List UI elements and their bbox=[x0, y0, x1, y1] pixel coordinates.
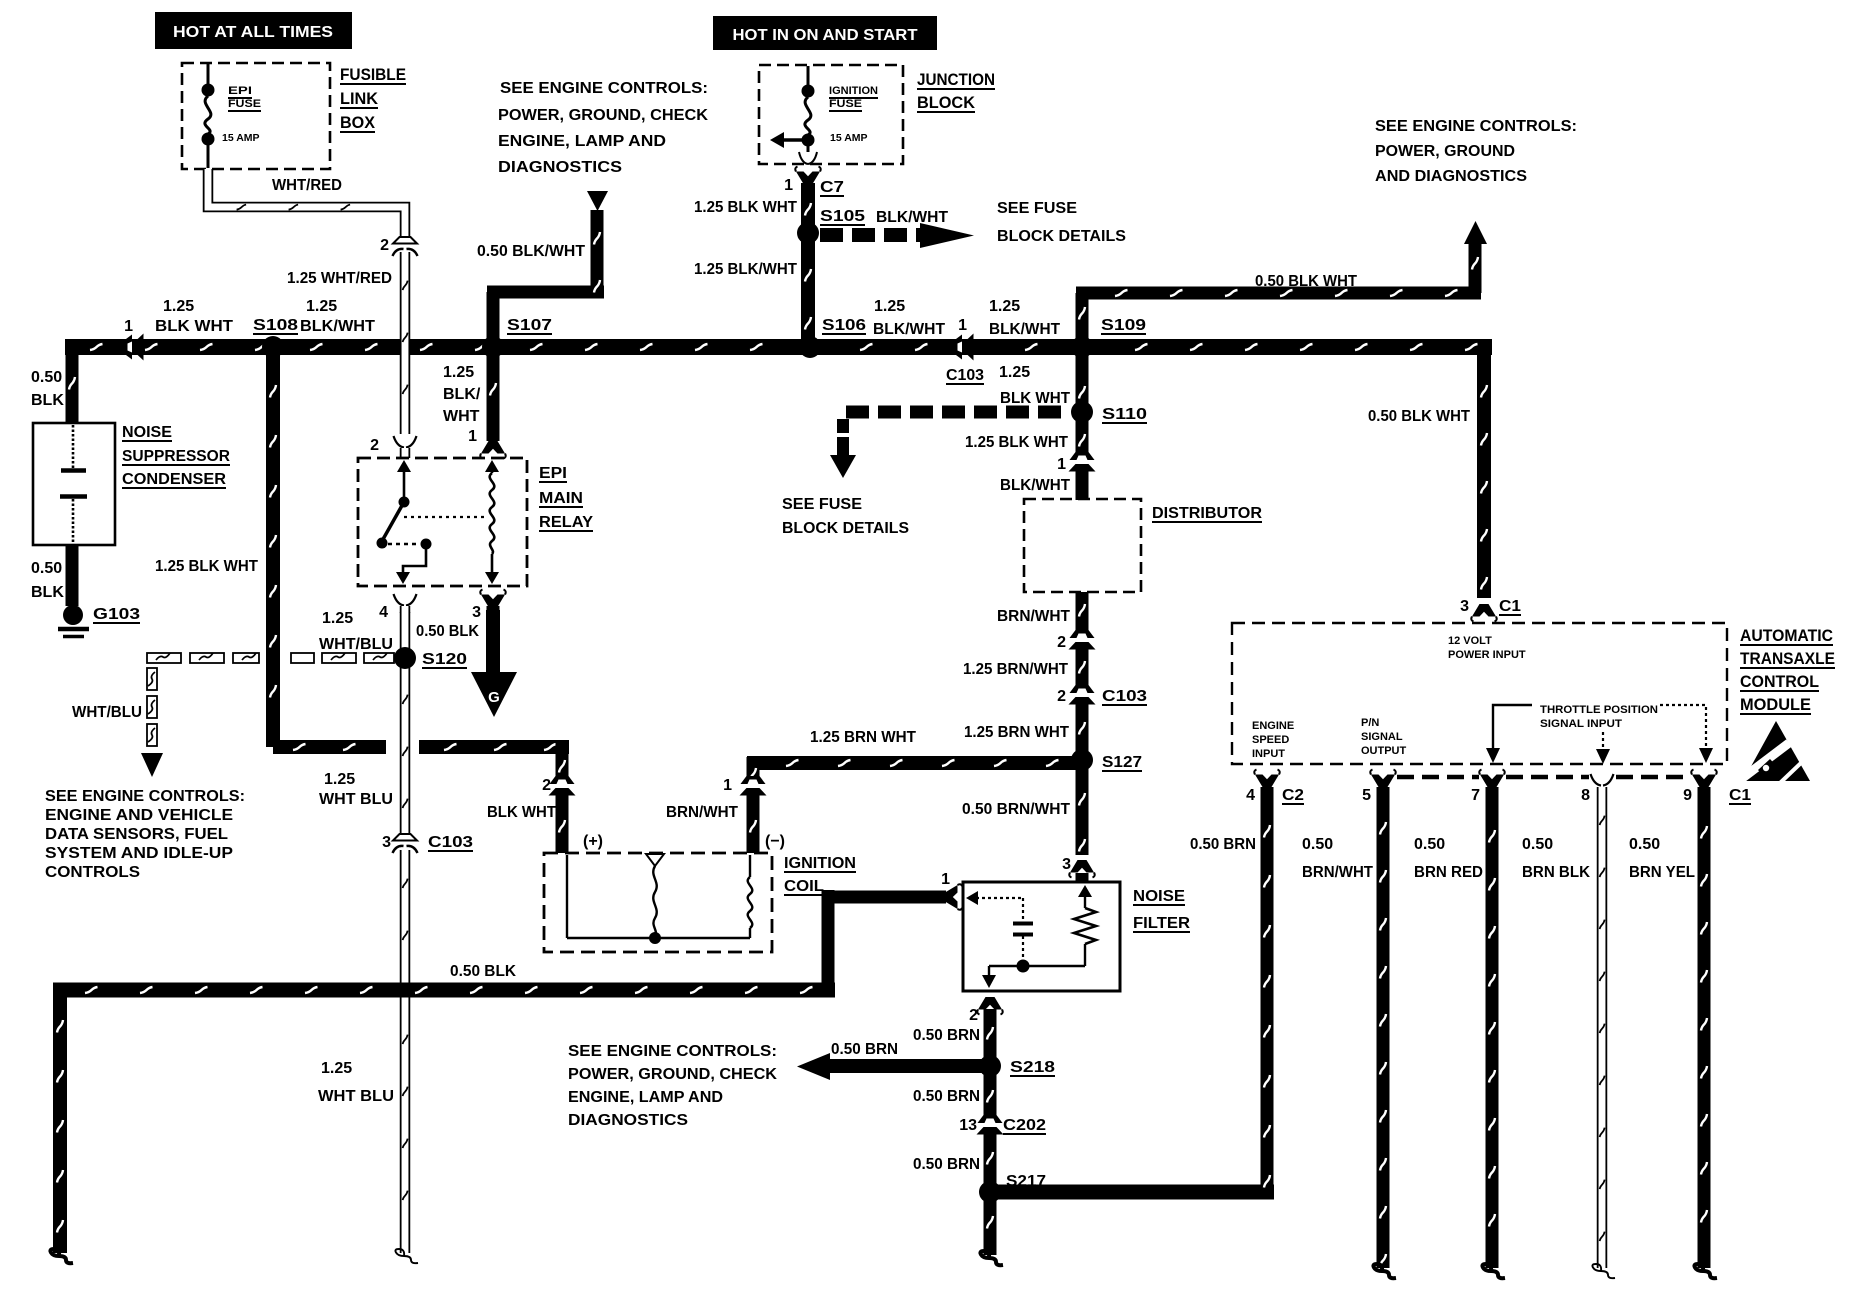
wire 0.50 BLK long bbox=[53, 983, 835, 998]
svg-text:C2: C2 bbox=[1282, 787, 1304, 804]
wire drop to coil (+) bbox=[556, 740, 569, 780]
svg-text:1.25: 1.25 bbox=[989, 298, 1020, 315]
connector 2 WHT/RED bbox=[393, 237, 417, 244]
connector 3 C103 open bbox=[393, 834, 417, 841]
wire into distributor bbox=[1076, 471, 1089, 500]
svg-text:BLK/WHT: BLK/WHT bbox=[300, 318, 375, 335]
noise filter pin1 fork bbox=[945, 884, 963, 909]
node S109 dot overlay bbox=[1071, 336, 1093, 358]
svg-text:POWER, GROUND, CHECK: POWER, GROUND, CHECK bbox=[568, 1066, 777, 1083]
svg-text:1: 1 bbox=[941, 871, 950, 888]
connector 1 left on bus bbox=[124, 334, 144, 361]
wire 0.50 BRN/WHT pin5 bbox=[1377, 787, 1390, 1268]
svg-text:1.25 WHT/RED: 1.25 WHT/RED bbox=[287, 270, 392, 287]
ignition coil box bbox=[544, 853, 772, 952]
node S108 dot overlay bbox=[262, 336, 284, 358]
ground arrow G bbox=[471, 672, 517, 717]
wire C103 to S127 bbox=[1076, 704, 1089, 760]
svg-text:THROTTLE POSITION: THROTTLE POSITION bbox=[1540, 704, 1658, 716]
node S107 dot overlay bbox=[482, 336, 504, 358]
svg-text:2: 2 bbox=[380, 237, 389, 254]
svg-text:EPI: EPI bbox=[228, 85, 252, 97]
svg-text:BRN/WHT: BRN/WHT bbox=[666, 804, 738, 821]
node S107 bbox=[484, 338, 503, 357]
svg-text:S110: S110 bbox=[1102, 406, 1147, 423]
connector bar C1 bbox=[1397, 775, 1479, 780]
svg-text:C202: C202 bbox=[1003, 1117, 1046, 1134]
svg-text:15 AMP: 15 AMP bbox=[830, 132, 868, 144]
svg-text:BLK WHT: BLK WHT bbox=[1000, 390, 1070, 407]
svg-text:1.25 BLK/WHT: 1.25 BLK/WHT bbox=[694, 261, 797, 278]
svg-text:FILTER: FILTER bbox=[1133, 915, 1190, 932]
wire WHT/RED open bbox=[208, 169, 405, 240]
wire 1.25 BLK/WHT S105 to S106 bbox=[801, 233, 815, 347]
node S109 bbox=[1073, 338, 1092, 357]
svg-text:BLK: BLK bbox=[31, 392, 64, 409]
wire into coil (+) bbox=[556, 793, 569, 853]
svg-text:ENGINE, LAMP AND: ENGINE, LAMP AND bbox=[498, 133, 666, 150]
fuse EPI FUSE symbol bbox=[207, 64, 210, 84]
svg-text:SEE FUSE: SEE FUSE bbox=[782, 496, 862, 513]
arrow down WHT/BLU bbox=[141, 753, 163, 777]
ignition coil internals bbox=[566, 855, 568, 938]
svg-text:0.50 BRN: 0.50 BRN bbox=[913, 1088, 980, 1105]
relay pin2 fork bbox=[394, 436, 417, 448]
svg-text:0.50 BLK: 0.50 BLK bbox=[416, 623, 479, 640]
svg-text:(+): (+) bbox=[583, 833, 603, 850]
svg-text:0.50 BRN: 0.50 BRN bbox=[831, 1041, 898, 1058]
svg-text:WHT/RED: WHT/RED bbox=[272, 177, 342, 194]
svg-text:CONDENSER: CONDENSER bbox=[122, 471, 226, 488]
svg-text:1.25: 1.25 bbox=[322, 610, 353, 627]
svg-text:WHT BLU: WHT BLU bbox=[319, 791, 393, 808]
wire 0.50 BRN BLK pin8 open bbox=[1597, 787, 1608, 1268]
svg-text:G103: G103 bbox=[93, 606, 140, 623]
wire 0.50 BRN RED pin7 bbox=[1486, 787, 1499, 1268]
svg-text:IGNITION: IGNITION bbox=[829, 85, 878, 97]
wire S109 down to S110 bbox=[1076, 347, 1089, 457]
svg-text:S109: S109 bbox=[1101, 317, 1146, 334]
svg-text:SEE ENGINE CONTROLS:: SEE ENGINE CONTROLS: bbox=[1375, 118, 1577, 135]
wire S217 down bbox=[984, 1192, 997, 1255]
noise filter box bbox=[963, 882, 1120, 991]
ground G103 bbox=[63, 605, 83, 625]
node S217 dot overlay bbox=[979, 1181, 1001, 1203]
node S127 dot overlay bbox=[1071, 749, 1093, 771]
svg-text:0.50 BRN: 0.50 BRN bbox=[913, 1156, 980, 1173]
svg-text:0.50 BLK: 0.50 BLK bbox=[450, 963, 516, 980]
throttle bracket left bbox=[1493, 705, 1532, 748]
svg-text:BLOCK: BLOCK bbox=[917, 93, 976, 112]
svg-text:1.25: 1.25 bbox=[321, 1060, 352, 1077]
svg-text:0.50: 0.50 bbox=[31, 560, 62, 577]
wire 0.50 BLK left drop bbox=[53, 983, 67, 1253]
svg-text:S106: S106 bbox=[822, 317, 866, 334]
wire 0.50 BRN YEL pin9 bbox=[1698, 787, 1711, 1268]
ATCM pin 7 fork bbox=[1480, 775, 1504, 788]
svg-text:0.50: 0.50 bbox=[31, 369, 62, 386]
node S110 dot overlay bbox=[1071, 401, 1093, 423]
svg-text:IGNITION: IGNITION bbox=[784, 855, 856, 872]
svg-text:7: 7 bbox=[1471, 787, 1480, 804]
svg-text:1.25 BRN/WHT: 1.25 BRN/WHT bbox=[963, 661, 1068, 678]
svg-text:C7: C7 bbox=[820, 179, 844, 196]
wire 1.25 WHT/BLU relay to S120 bbox=[400, 612, 411, 651]
svg-text:1.25: 1.25 bbox=[999, 364, 1030, 381]
wire 0.50 BRN/WHT S127 down bbox=[1076, 760, 1089, 855]
svg-text:SPEED: SPEED bbox=[1252, 734, 1289, 746]
hook pin7 bbox=[1482, 1264, 1505, 1278]
svg-text:SIGNAL: SIGNAL bbox=[1361, 731, 1403, 743]
svg-text:0.50: 0.50 bbox=[1302, 836, 1333, 853]
arrow down see fuse block bbox=[830, 455, 856, 478]
svg-text:1: 1 bbox=[124, 318, 133, 335]
power label HOT IN ON AND START bbox=[713, 16, 937, 50]
wire 0.50 BLK condenser to ground bbox=[66, 545, 79, 606]
wire 0.50 BRN filter to S218 bbox=[984, 1009, 997, 1066]
svg-text:BOX: BOX bbox=[340, 113, 376, 132]
svg-text:1.25: 1.25 bbox=[443, 364, 474, 381]
hook pin5 bbox=[1373, 1264, 1396, 1278]
svg-text:BRN BLK: BRN BLK bbox=[1522, 864, 1590, 881]
svg-text:2: 2 bbox=[542, 777, 551, 794]
svg-text:0.50 BRN: 0.50 BRN bbox=[1190, 836, 1256, 853]
wire 1.25 BLK/WHT S107 to relay pin1 bbox=[487, 347, 500, 441]
svg-text:NOISE: NOISE bbox=[122, 424, 172, 441]
svg-text:0.50: 0.50 bbox=[1414, 836, 1445, 853]
svg-text:G: G bbox=[488, 689, 500, 706]
svg-text:S120: S120 bbox=[422, 651, 467, 668]
ATCM pin 4 fork bbox=[1255, 775, 1279, 788]
svg-text:0.50 BRN: 0.50 BRN bbox=[913, 1027, 980, 1044]
svg-text:12 VOLT: 12 VOLT bbox=[1448, 635, 1492, 647]
junction block box bbox=[759, 65, 903, 164]
svg-text:HOT AT ALL TIMES: HOT AT ALL TIMES bbox=[173, 24, 333, 41]
svg-text:SEE ENGINE CONTROLS:: SEE ENGINE CONTROLS: bbox=[500, 80, 708, 97]
wire main bus 1.25 BLK/WHT bbox=[65, 339, 1492, 355]
svg-text:CONTROL: CONTROL bbox=[1740, 672, 1819, 691]
wire 0.50 BLK relay to G bbox=[486, 610, 500, 674]
svg-text:POWER, GROUND, CHECK: POWER, GROUND, CHECK bbox=[498, 107, 708, 124]
svg-text:DATA SENSORS, FUEL: DATA SENSORS, FUEL bbox=[45, 826, 228, 843]
svg-text:OUTPUT: OUTPUT bbox=[1361, 745, 1407, 757]
svg-text:WHT BLU: WHT BLU bbox=[318, 1088, 394, 1105]
svg-text:2: 2 bbox=[370, 437, 379, 454]
throttle bracket right bbox=[1660, 705, 1706, 748]
node S106 bbox=[801, 338, 820, 357]
capacitor inside condenser bbox=[72, 425, 75, 468]
svg-text:MODULE: MODULE bbox=[1740, 695, 1811, 714]
dashed arrow BLK/WHT to fuse block bbox=[820, 228, 922, 242]
hook pin8 bbox=[1592, 1264, 1615, 1278]
svg-text:DIAGNOSTICS: DIAGNOSTICS bbox=[568, 1112, 688, 1129]
wire stub into filter bbox=[1076, 873, 1089, 882]
svg-text:HOT IN ON AND START: HOT IN ON AND START bbox=[733, 27, 918, 44]
svg-text:WHT/BLU: WHT/BLU bbox=[319, 636, 393, 653]
ESD warning symbol bbox=[1743, 721, 1810, 781]
svg-text:1.25: 1.25 bbox=[874, 298, 905, 315]
wire 0.50 BLK WHT S109 up bbox=[1076, 293, 1089, 347]
svg-text:1: 1 bbox=[723, 777, 732, 794]
svg-text:C103: C103 bbox=[1102, 688, 1147, 705]
relay pin1 fork bbox=[481, 441, 505, 454]
svg-text:1.25 BRN WHT: 1.25 BRN WHT bbox=[964, 724, 1069, 741]
wire 1.25 BRN WHT S127 left bbox=[747, 756, 1082, 770]
svg-text:S107: S107 bbox=[507, 317, 552, 334]
wire C202 to S217 bbox=[984, 1134, 997, 1192]
node S106 dot overlay bbox=[799, 336, 821, 358]
wire S217 right to pin4 wire bbox=[990, 1185, 1274, 1200]
fusible link box bbox=[182, 63, 330, 169]
svg-text:LINK: LINK bbox=[340, 89, 379, 108]
svg-text:C1: C1 bbox=[1729, 787, 1751, 804]
node S105 dot overlay bbox=[797, 222, 819, 244]
svg-text:1.25 BLK WHT: 1.25 BLK WHT bbox=[965, 434, 1068, 451]
node S120 bbox=[396, 649, 415, 668]
svg-text:3: 3 bbox=[382, 834, 391, 851]
wire 0.50 BLK/WHT to ATCM pin3 bbox=[1477, 347, 1491, 598]
svg-text:BLOCK DETAILS: BLOCK DETAILS bbox=[782, 520, 909, 537]
svg-text:POWER, GROUND: POWER, GROUND bbox=[1375, 143, 1515, 160]
svg-text:CONTROLS: CONTROLS bbox=[45, 864, 140, 881]
svg-text:SIGNAL INPUT: SIGNAL INPUT bbox=[1540, 718, 1622, 730]
svg-text:FUSE: FUSE bbox=[829, 98, 862, 110]
svg-text:3: 3 bbox=[1062, 856, 1071, 873]
svg-text:4: 4 bbox=[379, 604, 388, 621]
svg-text:BLK/WHT: BLK/WHT bbox=[873, 321, 945, 338]
noise filter internals bbox=[966, 891, 978, 905]
relay pin3 fork bbox=[481, 595, 505, 608]
svg-text:BLK/: BLK/ bbox=[443, 386, 481, 403]
svg-text:(−): (−) bbox=[765, 833, 785, 850]
node S110 bbox=[1073, 403, 1092, 422]
svg-text:BLK: BLK bbox=[31, 584, 64, 601]
throttle bracket middle bbox=[1602, 732, 1604, 749]
wire S218 to C202 bbox=[984, 1066, 997, 1117]
wire 1.25 BLK WHT junction to S105 bbox=[801, 183, 815, 233]
svg-text:1.25 BRN WHT: 1.25 BRN WHT bbox=[810, 729, 916, 746]
node S127 bbox=[1073, 751, 1092, 770]
ATCM pin 9 fork bbox=[1692, 775, 1716, 788]
svg-text:BLK WHT: BLK WHT bbox=[487, 804, 556, 821]
node S217 bbox=[981, 1183, 1000, 1202]
svg-text:P/N: P/N bbox=[1361, 717, 1379, 729]
svg-text:0.50 BLK WHT: 0.50 BLK WHT bbox=[1368, 408, 1470, 425]
connector 1 above distributor bbox=[1070, 452, 1095, 460]
svg-text:2: 2 bbox=[1057, 688, 1066, 705]
svg-text:EPI: EPI bbox=[539, 465, 567, 482]
svg-text:0.50: 0.50 bbox=[1522, 836, 1553, 853]
connector 1 at coil (-) bbox=[741, 776, 766, 784]
svg-text:4: 4 bbox=[1246, 787, 1255, 804]
svg-text:S218: S218 bbox=[1010, 1059, 1055, 1076]
offpage arrow down-tip top bbox=[587, 191, 608, 211]
ATCM pin 5 fork bbox=[1371, 775, 1395, 788]
svg-text:1.25: 1.25 bbox=[306, 298, 337, 315]
svg-text:S105: S105 bbox=[820, 208, 865, 225]
svg-text:1: 1 bbox=[1057, 456, 1066, 473]
connector 13 C202 bbox=[978, 1115, 1003, 1123]
connector 2 below distributor bbox=[1070, 630, 1095, 638]
svg-text:TRANSAXLE: TRANSAXLE bbox=[1740, 649, 1835, 668]
svg-text:1: 1 bbox=[784, 177, 793, 194]
svg-text:BLK WHT: BLK WHT bbox=[155, 318, 233, 335]
wire 1.25 WHT BLU S120 down bbox=[400, 666, 411, 835]
node S120 dot overlay bbox=[394, 647, 416, 669]
svg-text:FUSE: FUSE bbox=[228, 98, 261, 110]
svg-text:ENGINE AND VEHICLE: ENGINE AND VEHICLE bbox=[45, 807, 233, 824]
svg-text:0.50: 0.50 bbox=[1629, 836, 1660, 853]
svg-text:BLOCK DETAILS: BLOCK DETAILS bbox=[997, 228, 1126, 245]
svg-text:8: 8 bbox=[1581, 787, 1590, 804]
relay switch internals bbox=[403, 466, 406, 500]
svg-text:DISTRIBUTOR: DISTRIBUTOR bbox=[1152, 505, 1262, 522]
ATCM pin 8 fork bbox=[1591, 774, 1614, 786]
junction exit female fork bbox=[799, 152, 817, 164]
svg-text:BLK/WHT: BLK/WHT bbox=[876, 209, 948, 226]
svg-text:COIL: COIL bbox=[784, 878, 824, 895]
relay coil internals bbox=[491, 466, 494, 473]
svg-text:C1: C1 bbox=[1499, 598, 1521, 615]
svg-text:AND DIAGNOSTICS: AND DIAGNOSTICS bbox=[1375, 168, 1527, 185]
node S218 bbox=[981, 1057, 1000, 1076]
offpage arrow up top-right bbox=[1464, 221, 1487, 244]
svg-text:S127: S127 bbox=[1102, 754, 1142, 771]
noise filter pin2 fork bbox=[978, 997, 1002, 1010]
svg-text:BRN RED: BRN RED bbox=[1414, 864, 1483, 881]
svg-text:9: 9 bbox=[1683, 787, 1692, 804]
svg-text:13: 13 bbox=[959, 1117, 977, 1134]
wire S108 branch to coil (+) horizontal bbox=[273, 740, 386, 754]
svg-text:MAIN: MAIN bbox=[539, 490, 583, 507]
wire drop to coil (-) bbox=[747, 757, 760, 780]
node S108 bbox=[264, 338, 283, 357]
svg-text:RELAY: RELAY bbox=[539, 514, 593, 531]
node S105 bbox=[799, 224, 818, 243]
svg-text:0.50 BLK/WHT: 0.50 BLK/WHT bbox=[477, 243, 585, 260]
svg-text:ENGINE: ENGINE bbox=[1252, 720, 1294, 732]
fuse IGNITION FUSE symbol bbox=[807, 66, 810, 85]
wire pin3 fork into ATCM bbox=[1472, 604, 1496, 617]
svg-text:1: 1 bbox=[468, 428, 477, 445]
svg-text:SEE ENGINE CONTROLS:: SEE ENGINE CONTROLS: bbox=[45, 788, 245, 805]
svg-text:JUNCTION: JUNCTION bbox=[917, 70, 995, 89]
wire 0.50 BLK/WHT up from S107 bbox=[487, 292, 500, 347]
svg-text:NOISE: NOISE bbox=[1133, 888, 1185, 905]
svg-text:S108: S108 bbox=[253, 317, 298, 334]
wire 1.25 WHT/RED open to relay bbox=[400, 252, 411, 434]
svg-text:2: 2 bbox=[1057, 634, 1066, 651]
svg-text:15 AMP: 15 AMP bbox=[222, 132, 260, 144]
dashed wire WHT/BLU left from S120 bbox=[147, 653, 181, 663]
svg-text:3: 3 bbox=[472, 604, 481, 621]
connector C7 male fork bbox=[796, 172, 820, 185]
svg-text:BLK/WHT: BLK/WHT bbox=[1000, 477, 1070, 494]
hook end WHT BLU bbox=[395, 1249, 418, 1263]
noise suppressor condenser box bbox=[33, 423, 115, 545]
connector 2 at coil (+) bbox=[550, 776, 575, 784]
wire 0.50 BRN pin4 bbox=[1261, 787, 1274, 1192]
arrow 0.50 BRN left bbox=[828, 1059, 988, 1073]
svg-text:ENGINE, LAMP AND: ENGINE, LAMP AND bbox=[568, 1089, 723, 1106]
connector 2 C103 bbox=[1070, 685, 1095, 693]
noise filter pin3 fork bbox=[1070, 860, 1094, 873]
svg-text:0.50 BRN/WHT: 0.50 BRN/WHT bbox=[962, 801, 1070, 818]
svg-text:1: 1 bbox=[958, 317, 967, 334]
svg-text:INPUT: INPUT bbox=[1252, 748, 1285, 760]
wire distributor down bbox=[1076, 592, 1089, 631]
wire to C103 connector bbox=[1076, 649, 1089, 686]
ATCM box bbox=[1232, 623, 1727, 764]
svg-text:1.25 BLK WHT: 1.25 BLK WHT bbox=[155, 558, 258, 575]
svg-text:AUTOMATIC: AUTOMATIC bbox=[1740, 626, 1833, 645]
svg-text:POWER INPUT: POWER INPUT bbox=[1448, 649, 1526, 661]
svg-text:BLK/WHT: BLK/WHT bbox=[989, 321, 1060, 338]
EPI main relay box bbox=[358, 458, 527, 586]
dashed wire S110 left bbox=[846, 406, 1070, 419]
wire 1.25 BLK/WHT S108 down bbox=[266, 347, 280, 747]
svg-text:C103: C103 bbox=[428, 834, 473, 851]
wire 1.25 WHT BLU to bottom bbox=[400, 850, 411, 1253]
wire into coil (-) bbox=[747, 793, 760, 853]
svg-text:3: 3 bbox=[1460, 598, 1469, 615]
svg-text:5: 5 bbox=[1362, 787, 1371, 804]
svg-text:SYSTEM AND IDLE-UP: SYSTEM AND IDLE-UP bbox=[45, 845, 233, 862]
svg-text:SUPPRESSOR: SUPPRESSOR bbox=[122, 448, 230, 465]
svg-text:1.25: 1.25 bbox=[163, 298, 194, 315]
relay pin4 fork bbox=[394, 594, 417, 606]
svg-text:1.25 BLK WHT: 1.25 BLK WHT bbox=[694, 199, 797, 216]
connector 1 C103 on bus bbox=[954, 334, 974, 361]
distributor box bbox=[1024, 499, 1141, 592]
svg-text:SEE ENGINE CONTROLS:: SEE ENGINE CONTROLS: bbox=[568, 1043, 777, 1060]
hook pin9 bbox=[1694, 1264, 1717, 1278]
svg-text:0.50 BLK WHT: 0.50 BLK WHT bbox=[1255, 273, 1357, 290]
svg-text:BRN YEL: BRN YEL bbox=[1629, 864, 1695, 881]
power label HOT AT ALL TIMES bbox=[155, 12, 352, 49]
node S218 dot overlay bbox=[979, 1055, 1001, 1077]
svg-text:BRN/WHT: BRN/WHT bbox=[1302, 864, 1373, 881]
svg-text:BRN/WHT: BRN/WHT bbox=[997, 608, 1070, 625]
svg-text:1.25: 1.25 bbox=[324, 771, 355, 788]
svg-text:FUSIBLE: FUSIBLE bbox=[340, 65, 406, 84]
hook end S217 bbox=[980, 1251, 1003, 1265]
hook end 0.50 BLK bbox=[50, 1249, 73, 1263]
svg-text:WHT: WHT bbox=[443, 408, 480, 425]
svg-text:C103: C103 bbox=[946, 367, 984, 384]
svg-text:WHT/BLU: WHT/BLU bbox=[72, 704, 142, 721]
svg-text:SEE FUSE: SEE FUSE bbox=[997, 200, 1077, 217]
svg-text:2: 2 bbox=[969, 1007, 978, 1024]
wire 0.50 BLK to condenser bbox=[66, 347, 79, 424]
svg-text:DIAGNOSTICS: DIAGNOSTICS bbox=[498, 159, 622, 176]
fuse test arrow left bbox=[784, 138, 808, 142]
